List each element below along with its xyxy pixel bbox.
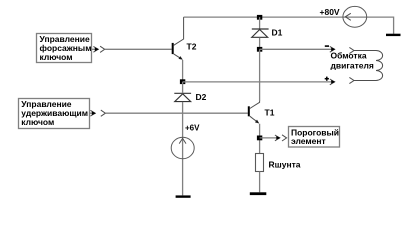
wire to T2 base (105, 48, 172, 50)
svg-text:T2: T2 (187, 42, 197, 52)
chevron C3 (winding top input) (349, 47, 354, 53)
wire box2 to arrow (90, 112, 95, 114)
wire junction to threshold arrow (260, 137, 279, 139)
box "Пороговый элемент" (289, 127, 340, 148)
arrow A3 (330, 46, 336, 52)
junction dot J3 (T2 emitter / D2 / + wire) (180, 79, 185, 84)
diode D1 (252, 29, 269, 37)
svg-text:T1: T1 (265, 108, 275, 118)
+80V source circle (343, 6, 367, 27)
junction dot J2 (D1 / minus wire / T1 collector) (257, 47, 262, 52)
wire to T1 base (105, 112, 247, 114)
box "Управление форсажным ключом" (37, 34, 92, 63)
minus sign (325, 45, 329, 47)
arrow A2 (90, 110, 96, 116)
label "Обмотка двигателя" (331, 51, 374, 71)
ground below +6V (176, 195, 191, 197)
transistor T1 (248, 101, 260, 124)
T1 emitter vertical wire (259, 124, 261, 154)
ground below resistor (250, 192, 266, 195)
svg-text:двигателя: двигателя (331, 61, 374, 71)
svg-text:элемент: элемент (291, 136, 326, 146)
motor winding coil (354, 51, 383, 81)
chevron C5 (282, 135, 287, 141)
svg-text:ключом: ключом (21, 117, 54, 127)
svg-text:Обмотка: Обмотка (331, 51, 367, 61)
svg-text:D1: D1 (272, 28, 283, 38)
top +80V rail wire (184, 17, 394, 34)
chevron C4 (winding bottom input) (349, 77, 354, 83)
D1 wire top (259, 17, 261, 29)
wire D1 junction down to T1 collector (259, 49, 261, 101)
box "Управление удерживающим ключом" (19, 99, 90, 129)
svg-text:+80V: +80V (320, 7, 340, 17)
resistor Rшунта (256, 154, 264, 172)
svg-text:ключом: ключом (40, 52, 73, 62)
wire to "-" arrow (winding minus lead) (260, 48, 334, 50)
junction dot J4 (257, 136, 262, 141)
arrow A1 (93, 46, 99, 52)
plus sign (325, 77, 329, 81)
wire box1 to arrow (92, 48, 98, 50)
D2 wire down through crossing to +6V source and ground (182, 82, 184, 195)
junction dot J1 (top rail / D1) (257, 15, 262, 20)
chevron C1 (100, 46, 105, 52)
diode D2 (174, 93, 191, 101)
arrow A5 (275, 135, 281, 141)
svg-text:+6V: +6V (185, 124, 200, 133)
+6V source circle (171, 137, 194, 158)
transistor T2 (172, 17, 184, 60)
ground top right (386, 34, 401, 36)
wire to "+" arrow (winding plus lead) (183, 81, 334, 83)
chevron C2 (101, 110, 106, 116)
arrow A4 (330, 79, 336, 85)
T2 emitter vertical wire (182, 60, 184, 82)
svg-text:Rшунта: Rшунта (269, 160, 301, 170)
D1 anode wire down to junction (259, 38, 261, 50)
svg-text:D2: D2 (196, 92, 207, 102)
wire resistor to ground (259, 172, 261, 193)
